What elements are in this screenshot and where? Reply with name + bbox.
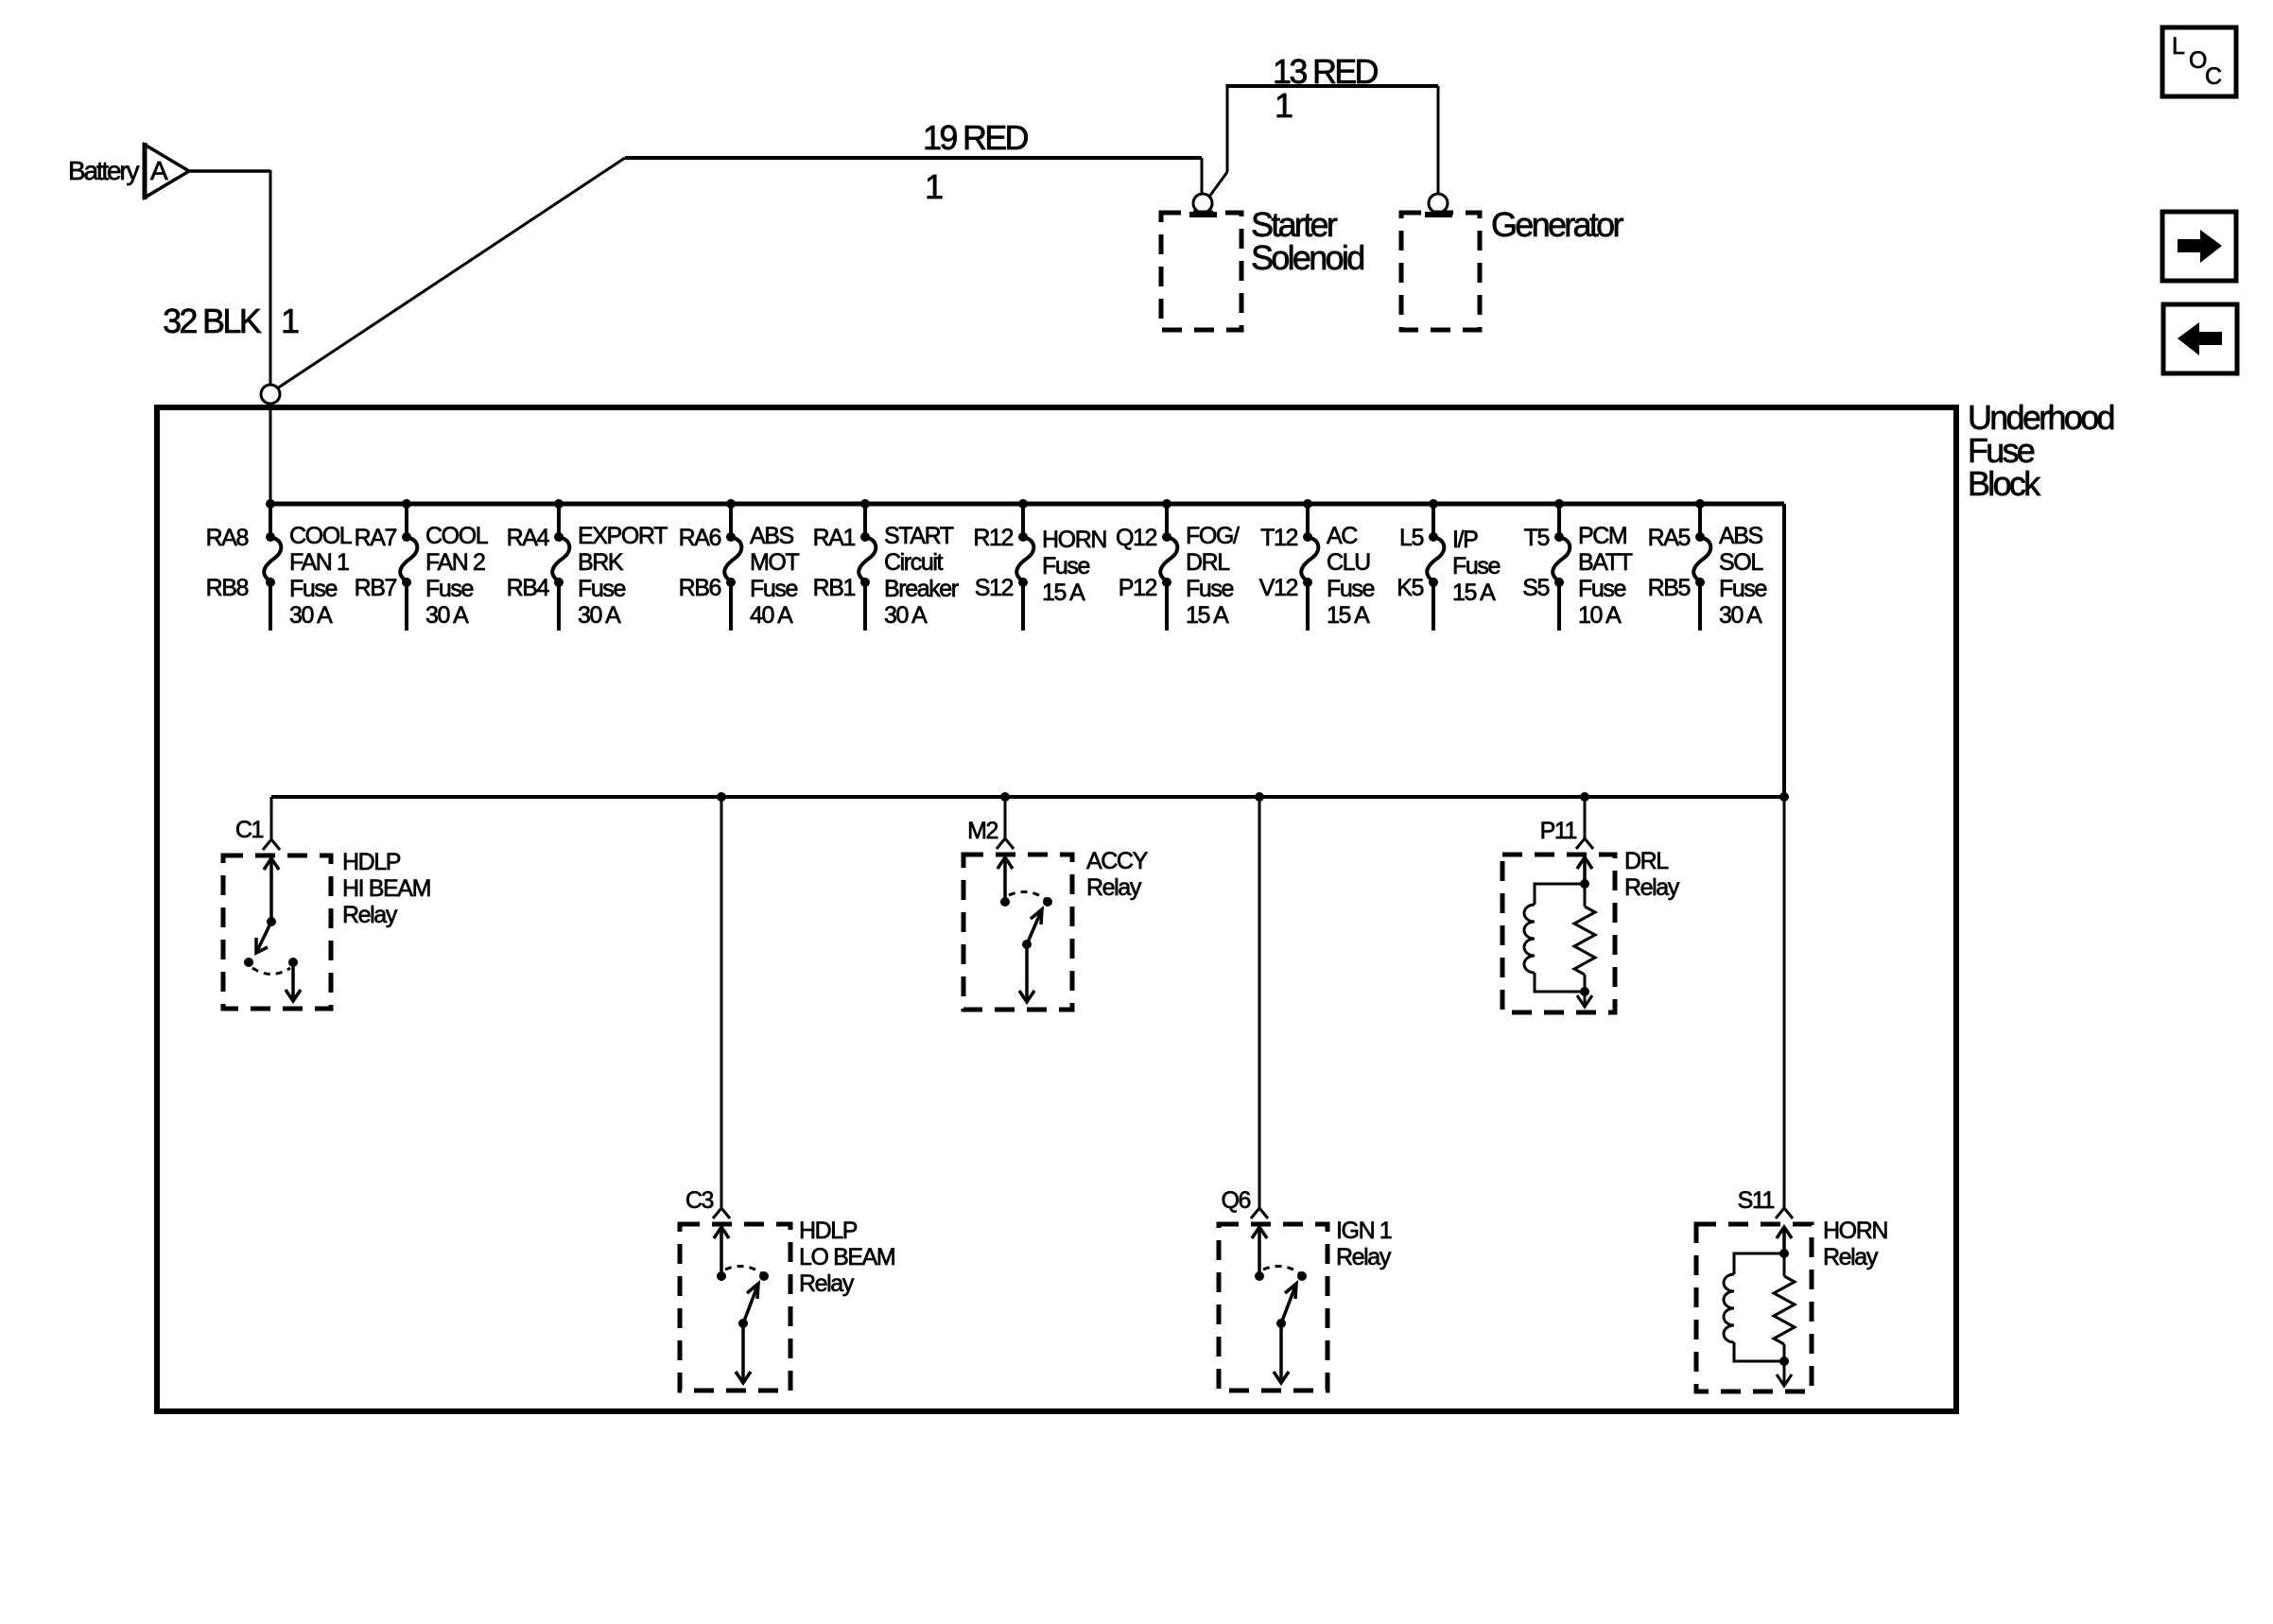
relay ACCY (M2) [963,792,1149,1010]
svg-text:R12: R12 [973,525,1013,551]
svg-text:ACCY: ACCY [1086,848,1149,874]
svg-text:BATT: BATT [1578,549,1633,576]
fuse PCM BATT (T5/S5) [1522,499,1632,631]
svg-text:32 BLK: 32 BLK [163,302,262,340]
svg-text:T5: T5 [1524,525,1550,551]
svg-text:CLU: CLU [1327,549,1370,576]
forward arrow icon [2162,212,2236,281]
svg-text:RB5: RB5 [1648,575,1691,601]
svg-text:Circuit: Circuit [884,549,943,576]
svg-text:COOL: COOL [425,523,489,549]
svg-text:Fuse: Fuse [1719,576,1766,602]
svg-text:Q12: Q12 [1116,525,1157,551]
svg-text:Fuse: Fuse [1452,553,1500,579]
svg-text:30 A: 30 A [289,602,333,629]
svg-text:P11: P11 [1540,818,1577,844]
wire 32 BLK from battery to fuse block [163,170,299,385]
svg-text:T12: T12 [1260,525,1297,551]
svg-text:RA7: RA7 [355,525,397,551]
fuse COOL FAN 1 (RA8/RB8) [206,499,353,631]
fuse bus (battery positive distribution) [270,504,1784,797]
fuse ABS SOL (RA5/RB5) [1648,499,1767,631]
svg-text:C1: C1 [235,817,264,843]
svg-text:AC: AC [1327,523,1358,549]
relay HORN (S11) [1696,797,1887,1391]
fuse ABS MOT (RA6/RB6) [679,499,800,631]
terminal: generator stud [1425,194,1452,215]
svg-text:SOL: SOL [1719,549,1763,576]
svg-text:RB1: RB1 [813,575,856,601]
LOC reference icon [2162,27,2236,96]
svg-text:HI BEAM: HI BEAM [342,875,430,902]
svg-text:13 RED: 13 RED [1273,52,1379,91]
svg-text:MOT: MOT [750,549,799,576]
fuse COOL FAN 2 (RA7/RB7) [355,499,489,631]
battery connector A [68,143,189,199]
svg-text:Block: Block [1968,464,2041,503]
svg-text:Generator: Generator [1491,205,1623,244]
svg-text:Fuse: Fuse [578,576,625,602]
svg-text:V12: V12 [1259,575,1298,601]
svg-text:A: A [150,156,168,185]
svg-text:Fuse: Fuse [1186,576,1233,602]
svg-text:ABS: ABS [1719,523,1763,549]
svg-text:C3: C3 [685,1187,714,1214]
svg-text:PCM: PCM [1578,523,1626,549]
svg-text:FOG/: FOG/ [1186,523,1240,549]
svg-text:1: 1 [925,167,943,206]
svg-text:IGN 1: IGN 1 [1336,1218,1392,1244]
svg-text:19 RED: 19 RED [923,118,1029,157]
svg-text:15 A: 15 A [1186,602,1229,629]
svg-text:M2: M2 [967,818,998,844]
svg-text:15 A: 15 A [1327,602,1370,629]
svg-text:10 A: 10 A [1578,602,1622,629]
svg-text:RA5: RA5 [1648,525,1691,551]
svg-text:L: L [2172,33,2185,60]
fuse START Circuit (RA1/RB1) [813,499,959,631]
svg-text:RB7: RB7 [355,575,397,601]
svg-text:C: C [2205,63,2222,90]
relay IGN 1 (Q6) [1219,792,1392,1391]
fuse HORN Fuse (R12/S12) [973,499,1106,631]
svg-text:DRL: DRL [1624,848,1669,874]
svg-text:RB8: RB8 [206,575,249,601]
svg-text:Relay: Relay [799,1270,855,1297]
starter solenoid [1161,205,1363,330]
svg-text:HORN: HORN [1042,527,1106,553]
svg-text:30 A: 30 A [578,602,621,629]
svg-text:FAN 1: FAN 1 [289,549,349,576]
relay HDLP LO BEAM (C3) [680,792,894,1391]
svg-text:P12: P12 [1119,575,1157,601]
svg-text:30 A: 30 A [1719,602,1762,629]
svg-text:FAN 2: FAN 2 [425,549,485,576]
svg-text:15 A: 15 A [1042,579,1085,606]
svg-text:Solenoid: Solenoid [1251,238,1363,277]
svg-text:COOL: COOL [289,523,353,549]
svg-text:Relay: Relay [1823,1244,1879,1270]
fuse FOG/ DRL (Q12/P12) [1116,499,1240,631]
svg-text:Relay: Relay [1624,874,1680,901]
svg-text:Relay: Relay [342,902,398,928]
svg-text:Fuse: Fuse [750,576,797,602]
svg-text:Fuse: Fuse [289,576,337,602]
svg-text:Fuse: Fuse [1578,576,1625,602]
wire 13 RED from starter solenoid to generator [1209,52,1438,197]
relay HDLP HI BEAM (C1) [223,797,430,1009]
svg-text:I/P: I/P [1452,527,1478,553]
svg-text:Relay: Relay [1086,874,1142,901]
svg-text:RA1: RA1 [813,525,856,551]
svg-text:Battery: Battery [68,156,140,185]
generator [1401,205,1623,330]
svg-text:ABS: ABS [750,523,794,549]
svg-text:30 A: 30 A [425,602,469,629]
svg-text:HDLP: HDLP [342,849,401,875]
svg-text:START: START [884,523,954,549]
svg-text:1: 1 [1275,86,1293,125]
svg-text:LO BEAM: LO BEAM [799,1244,894,1270]
relay feed bus [271,792,1789,802]
svg-text:15 A: 15 A [1452,579,1496,606]
svg-text:RA8: RA8 [206,525,249,551]
wire 19 RED from feed node to starter solenoid [277,118,1202,389]
svg-text:EXPORT: EXPORT [578,523,668,549]
terminal: starter solenoid stud [1189,194,1217,215]
svg-text:Fuse: Fuse [1327,576,1374,602]
fuse I/P Fuse (L5/K5) [1397,499,1500,631]
svg-text:RA4: RA4 [507,525,550,551]
svg-text:HDLP: HDLP [799,1218,858,1244]
wire: feed from terminal to fuse bus [269,404,272,504]
svg-text:Breaker: Breaker [884,576,959,602]
svg-text:Q6: Q6 [1221,1187,1250,1214]
svg-text:RA6: RA6 [679,525,721,551]
svg-text:HORN: HORN [1823,1218,1887,1244]
svg-text:30 A: 30 A [884,602,928,629]
svg-text:RB6: RB6 [679,575,721,601]
svg-text:S12: S12 [975,575,1014,601]
fuse AC CLU (T12/V12) [1259,499,1375,631]
svg-text:DRL: DRL [1186,549,1230,576]
svg-text:BRK: BRK [578,549,624,576]
svg-text:S11: S11 [1738,1187,1775,1214]
node: fuse block feed terminal [261,385,280,404]
relay DRL (P11) [1502,792,1680,1012]
svg-text:Fuse: Fuse [425,576,473,602]
svg-text:K5: K5 [1397,575,1423,601]
svg-text:Relay: Relay [1336,1244,1392,1270]
fuse EXPORT BRK (RA4/RB4) [507,499,668,631]
svg-text:S5: S5 [1522,575,1549,601]
svg-text:Fuse: Fuse [1042,553,1089,579]
svg-text:40 A: 40 A [750,602,793,629]
underhood fuse block enclosure [157,398,2114,1411]
svg-text:1: 1 [281,302,299,340]
svg-text:L5: L5 [1399,525,1424,551]
back arrow icon [2163,304,2237,373]
svg-text:RB4: RB4 [507,575,550,601]
